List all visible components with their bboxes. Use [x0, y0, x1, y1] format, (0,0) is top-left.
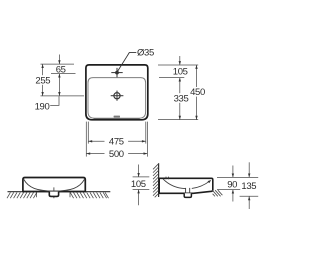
dim 90 line bottom [232, 190, 234, 202]
dim 190 leader [50, 96, 59, 105]
ext line bottom right outer [146, 122, 148, 157]
side ext line 105 top [133, 176, 150, 178]
dim 475 text [105, 137, 129, 148]
front view basin curve [24, 179, 85, 191]
svg-text:Ø35: Ø35 [137, 48, 154, 59]
ext line bottom left inner [87, 122, 89, 144]
side view basin curve back [163, 179, 185, 189]
svg-text:190: 190 [35, 102, 50, 113]
svg-text:255: 255 [35, 75, 50, 86]
dim 335 arrows [179, 78, 181, 120]
svg-text:475: 475 [109, 137, 124, 148]
ext line top edge right [158, 64, 198, 66]
dim 190 line [58, 74, 60, 96]
top view outer rim [86, 65, 148, 120]
front view body [23, 178, 85, 192]
front view hatch left [7, 192, 37, 198]
dim 450 arrows [195, 65, 197, 120]
front view drain cup [49, 192, 58, 197]
faucet hole [111, 68, 122, 77]
side view wall hatch [153, 164, 159, 198]
side view basin curve front [192, 181, 211, 189]
dim 450 text [189, 87, 205, 98]
basin bottom accent [94, 117, 140, 119]
svg-text:105: 105 [131, 179, 146, 190]
svg-text:105: 105 [173, 66, 188, 77]
dim 190 arrows [58, 74, 60, 96]
dim 90 arrow bottom [232, 190, 234, 194]
svg-text:90: 90 [227, 179, 237, 190]
dim 90 arrow top [232, 174, 234, 178]
ext line bottom left outer [85, 122, 87, 157]
dim 255 text [35, 75, 51, 86]
dim 335 line [179, 78, 181, 120]
side view wall line [158, 163, 160, 197]
dim 500 line [86, 153, 147, 155]
dim 475 arrows [88, 140, 146, 142]
front view hatch right [70, 192, 109, 198]
svg-text:500: 500 [109, 149, 124, 160]
dim 500 text [105, 149, 129, 160]
ext line basin top right [159, 77, 184, 79]
dim 475 line [88, 140, 146, 142]
ext line drain left [41, 95, 85, 97]
top view inner basin [88, 78, 146, 119]
logo mark [114, 116, 120, 118]
ext line top edge left [41, 63, 75, 65]
dim 135 line bottom [248, 196, 250, 209]
ext line bottom edge right [158, 119, 198, 121]
ext line bottom right inner [145, 122, 147, 144]
dim 135 arrow top [248, 174, 250, 178]
dim 450 line [196, 65, 198, 120]
side view basin curve arrowhead [208, 180, 212, 183]
ext line faucet left [51, 73, 76, 75]
side ext line 90 bottom [217, 189, 240, 191]
dim 65 line [58, 55, 60, 65]
leader line O35 [117, 53, 136, 72]
svg-text:135: 135 [241, 181, 256, 192]
dim 90 line top [232, 166, 234, 178]
side view body [159, 178, 213, 193]
side view faucet notch [166, 177, 168, 180]
dim 105s arrow top [137, 173, 139, 177]
side view drain cup [184, 193, 191, 197]
svg-text:450: 450 [190, 87, 205, 98]
dim 105s line top [138, 165, 140, 177]
dim 65 arrow [58, 60, 60, 64]
svg-text:65: 65 [56, 64, 66, 75]
dim 105s arrow bottom [137, 190, 139, 194]
front view drain axis [53, 187, 55, 198]
side view drain flange [186, 188, 190, 193]
dim 335 text [173, 93, 189, 104]
dim 105 line top [179, 56, 181, 65]
svg-text:335: 335 [174, 93, 189, 104]
drain [111, 91, 124, 101]
dim 255 line [42, 64, 44, 96]
front view ground line [8, 191, 111, 193]
dim 500 arrows [86, 152, 147, 154]
dim 105 arrow top [179, 61, 181, 65]
side ext line 135 bottom [240, 195, 259, 197]
side ext line rim top [217, 176, 258, 178]
side view counter corner hatch [212, 190, 222, 196]
dim 135 line top [248, 162, 250, 177]
dim 135 arrow bottom [248, 196, 250, 200]
side ext line 105 bottom [133, 189, 150, 191]
dim 255 arrows [41, 64, 43, 96]
dim 105s line bottom [138, 190, 140, 206]
